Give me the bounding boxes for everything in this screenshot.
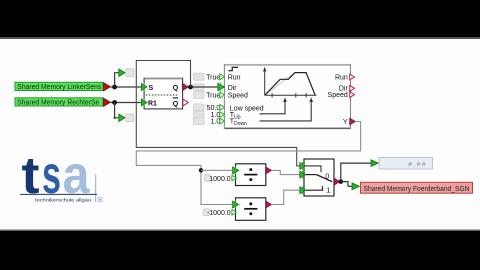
ramp output pin labels xyxy=(328,74,349,126)
svg-text:Q: Q xyxy=(173,101,179,108)
svg-text:S: S xyxy=(149,85,154,92)
output label Shared Memory Foerderband_SGN xyxy=(361,182,473,193)
output label green arrow xyxy=(352,183,359,190)
tsa logo letter a xyxy=(63,145,91,205)
wire Y output to dividers xyxy=(136,122,360,205)
Run input connector (open) xyxy=(220,74,225,80)
wire branch to divider 1 xyxy=(201,169,232,171)
feedback wire Q to switch selector xyxy=(136,61,300,166)
wire divider 1 to switch input 0 xyxy=(271,170,299,174)
junction at switch output xyxy=(339,179,344,184)
svg-text:Run: Run xyxy=(335,74,348,81)
edge trigger icon above Run xyxy=(229,67,239,70)
divider 1 value pill 1000.0 xyxy=(204,175,230,183)
junction on LinkerSens wire xyxy=(112,85,117,90)
Q output connector (connected) xyxy=(183,84,188,91)
divider block D1 xyxy=(236,164,266,186)
value pill True (Run) xyxy=(194,73,221,81)
svg-text:True: True xyxy=(206,93,220,100)
Dir input connector (connected) xyxy=(218,83,225,92)
divider 1 input X connector (connected) xyxy=(233,166,239,174)
ramp graph x-axis xyxy=(265,93,317,97)
svg-text:50.0: 50.0 xyxy=(207,105,221,112)
value pill True (Speed) xyxy=(194,92,221,100)
SR flip-flop block xyxy=(144,78,183,109)
tsa logo registered square xyxy=(98,198,102,202)
switch output connector (connected) xyxy=(334,178,339,185)
svg-text:0: 0 xyxy=(325,171,329,180)
display input green arrow xyxy=(371,160,378,167)
divider 2 value pill -1000.0 xyxy=(203,209,231,217)
svg-text:t: t xyxy=(22,147,40,205)
svg-text:s: s xyxy=(42,145,61,205)
top letterbox bar xyxy=(0,0,480,39)
wire switch output to output label xyxy=(341,182,352,187)
divider block D2 xyxy=(236,198,266,221)
junction on Q wire xyxy=(188,85,193,90)
R1 input connector xyxy=(141,99,147,107)
wire junction to probe A xyxy=(115,73,119,87)
value pill 1.0 (TUp) xyxy=(194,111,221,119)
value pill 50.0 (Low speed) xyxy=(194,104,221,112)
svg-text:True: True xyxy=(206,74,220,81)
svg-text:R1: R1 xyxy=(148,101,157,108)
svg-text:-1000.0: -1000.0 xyxy=(207,210,231,217)
value pill on Dir wire xyxy=(194,84,205,91)
svg-text:Q: Q xyxy=(173,85,179,92)
tsa logo wordmark technikerschule allgaeu xyxy=(35,198,92,203)
ramp generator block U2 xyxy=(224,65,350,129)
svg-text:#.##: #.## xyxy=(408,161,427,168)
input label Shared Memory LinkerSens xyxy=(15,82,111,91)
svg-text:technikerschule allgäu: technikerschule allgäu xyxy=(35,198,92,203)
svg-text:Shared Memory LinkerSens: Shared Memory LinkerSens xyxy=(17,84,101,91)
divider 1 output connector (connected) xyxy=(266,167,271,173)
TUp arrow into axis xyxy=(260,97,287,113)
svg-text:Shared Memory RechterSe: Shared Memory RechterSe xyxy=(17,99,99,106)
probe B value box xyxy=(126,114,134,122)
svg-text:Speed: Speed xyxy=(328,92,348,99)
Y output connector (connected) xyxy=(350,118,356,125)
wire junction to probe B xyxy=(114,103,120,119)
tsa logo letter s xyxy=(42,145,61,205)
junction on Y wire xyxy=(199,168,203,172)
svg-text:1000.0: 1000.0 xyxy=(209,176,231,183)
ramp graph ideal line xyxy=(265,73,295,96)
wire LinkerSens to S input xyxy=(111,86,143,88)
Dir output connector (open) xyxy=(350,85,355,91)
switch block SW1 xyxy=(304,159,334,196)
tsa logo letter t xyxy=(22,147,40,205)
svg-text:1.0: 1.0 xyxy=(211,119,221,126)
Qbar output connector (open) xyxy=(183,99,188,106)
svg-text:Low speed: Low speed xyxy=(230,106,264,113)
tsa logo rule xyxy=(20,193,97,195)
wire Q to Dir input xyxy=(188,86,220,88)
Speed output connector (open) xyxy=(350,92,355,98)
switch selector connector (connected) xyxy=(300,162,306,170)
svg-text:Run: Run xyxy=(228,74,241,81)
junction on RechterSe wire xyxy=(112,100,117,105)
svg-text:Speed: Speed xyxy=(228,93,248,100)
Low speed input connector (open) xyxy=(220,104,225,110)
Speed input connector (open) xyxy=(220,92,225,98)
value pill 1.0 (TDown) xyxy=(194,118,221,126)
switch input 0 connector (connected) xyxy=(300,171,306,179)
input label Shared Memory RechterSe xyxy=(15,98,111,107)
wire switch output to display xyxy=(341,163,371,182)
svg-text:Dir: Dir xyxy=(228,85,238,92)
ramp graph y-axis xyxy=(263,67,266,96)
Run output connector (open) xyxy=(350,74,355,80)
svg-text:a: a xyxy=(63,145,91,205)
svg-text:1: 1 xyxy=(326,186,330,195)
TUp input connector (open) xyxy=(220,112,225,118)
probe A green arrow xyxy=(119,69,125,76)
wire divider 2 to switch input 1 xyxy=(271,190,299,204)
divider 2 input N connector (open) xyxy=(232,210,237,216)
divider 2 input X connector (connected) xyxy=(233,200,239,208)
switch input 1 connector (connected) xyxy=(300,186,306,194)
TDown input connector (open) xyxy=(220,118,225,124)
bottom letterbox bar xyxy=(0,230,480,270)
TDown arrow into axis xyxy=(260,97,314,121)
svg-text:Shared Memory Foerderband_SGN: Shared Memory Foerderband_SGN xyxy=(364,186,470,193)
S input connector xyxy=(141,83,147,91)
probe B green arrow xyxy=(119,114,125,121)
numeric display #.## xyxy=(379,158,433,170)
probe A value box xyxy=(126,69,134,77)
divider 1 input N connector (open) xyxy=(232,175,237,181)
svg-text:Y: Y xyxy=(343,119,348,126)
divider 2 output connector (connected) xyxy=(266,201,271,207)
tsa logo plus mark xyxy=(95,174,97,202)
wire RechterSe to R1 input xyxy=(111,102,143,104)
ramp graph trajectory xyxy=(265,73,316,96)
ramp input pin labels xyxy=(228,74,264,127)
